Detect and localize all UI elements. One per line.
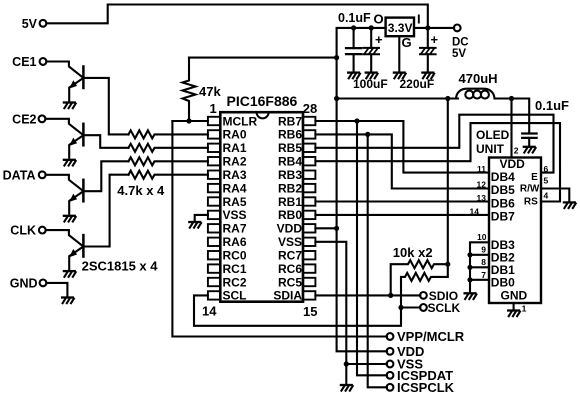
wire regulator G pin to ground (398, 36, 400, 71)
node 100uF tap (369, 25, 374, 30)
wire 5V to regulator input (46, 5, 427, 28)
ground (connector GND pin 1) (508, 311, 520, 317)
wire inductor to 0.1uF (OLED side) (496, 99, 530, 134)
wire VSS bus to VSS terminal (346, 363, 387, 365)
node RB6/ICSPCLK (365, 132, 370, 137)
wire RB6 to DB5 (315, 134, 489, 188)
resistor R2 4.7k (RA1) (129, 144, 208, 152)
resistor R3 4.7k (RA2) (129, 157, 208, 165)
wire 3.3V output rail (337, 28, 386, 228)
wire VSS pin to ground bus (315, 242, 346, 384)
terminal SDIO (420, 289, 458, 303)
wire Q2 collector to RA1 (83, 135, 128, 148)
terminal 5V (22, 17, 47, 31)
wire RB7 to DB4 (315, 121, 489, 173)
wire Q3 collector to RA2 (83, 161, 128, 191)
svg-text:RB5: RB5 (278, 141, 302, 155)
node RB7/ICSPDAT (354, 118, 359, 123)
svg-text:RC7: RC7 (278, 249, 302, 263)
svg-text:DB0: DB0 (491, 276, 515, 290)
svg-text:0.1uF: 0.1uF (535, 98, 569, 113)
resistor R6 10k (SCLK pull-up) (401, 264, 448, 307)
svg-text:RB3: RB3 (278, 168, 302, 182)
svg-text:RA3: RA3 (223, 168, 247, 182)
inductor L1 470uH (456, 71, 498, 99)
svg-text:7: 7 (481, 270, 486, 280)
svg-text:E: E (531, 172, 538, 183)
svg-text:0.1uF: 0.1uF (338, 11, 371, 25)
ground (DB3-DB0) (465, 293, 477, 299)
svg-text:10k x2: 10k x2 (393, 245, 433, 260)
capacitor 0.1uF (OLED supply) (522, 98, 569, 146)
right pin boxes (pins 28-15) (303, 117, 316, 300)
node 10k right ends (445, 262, 450, 267)
svg-text:14: 14 (470, 206, 480, 216)
svg-text:RC1: RC1 (223, 262, 247, 276)
wire regulator input rail (414, 27, 454, 29)
wire RB7 to ICSPDAT (357, 121, 387, 375)
svg-text:2: 2 (514, 145, 519, 155)
wire left bus (MCLR to VPP terminal) (172, 121, 387, 337)
terminal VDD (387, 344, 425, 359)
wire OLED VDD pin 2 drop (510, 99, 512, 158)
ground (100uF) (366, 73, 378, 79)
wire Q1 collector to RA0 (83, 78, 128, 134)
terminal CE2 (12, 112, 45, 126)
svg-text:O: O (374, 12, 384, 27)
capacitor C2 100uF electrolytic (353, 28, 388, 91)
svg-text:DB7: DB7 (491, 210, 515, 224)
svg-text:RA2: RA2 (223, 155, 247, 169)
connector J1 OLED module (489, 158, 541, 304)
node DB0 (467, 277, 472, 282)
transistor Q4 (46, 230, 84, 269)
ground (0.1uF) (348, 73, 360, 79)
transistor Q1 (46, 62, 83, 101)
node SCLK/SCL (398, 305, 403, 310)
node VSS terminal (344, 361, 349, 366)
svg-text:RC6: RC6 (278, 262, 302, 276)
resistor R5 10k (SDIO pull-up) (391, 245, 448, 295)
svg-text:CE1: CE1 (12, 55, 36, 69)
wire VDD rail to VDD terminal (337, 228, 387, 351)
node MCLR/47k (186, 118, 191, 123)
svg-text:RA4: RA4 (223, 181, 247, 195)
terminal DC 5V (452, 25, 469, 61)
svg-text:13: 13 (477, 193, 487, 203)
transistor Q3 (46, 175, 84, 214)
svg-text:+: + (375, 32, 383, 47)
svg-text:UNIT: UNIT (476, 142, 505, 156)
svg-text:ICSPCLK: ICSPCLK (397, 380, 455, 395)
svg-text:RB1: RB1 (278, 195, 302, 209)
svg-text:DB5: DB5 (491, 183, 515, 197)
wire SCL (pin 14) to SCLK (194, 295, 401, 325)
label OLED UNIT (476, 128, 510, 156)
terminal CLK (10, 224, 45, 238)
svg-text:12: 12 (477, 180, 487, 190)
svg-text:15: 15 (303, 304, 317, 319)
resistor R4 4.7k (RA3) (129, 171, 208, 179)
terminal VSS (387, 357, 424, 372)
svg-text:RC5: RC5 (278, 275, 302, 289)
svg-text:5V: 5V (22, 17, 38, 31)
node inductor left tap (334, 96, 339, 101)
svg-text:14: 14 (202, 304, 217, 319)
ground (Q3 emitter) (64, 216, 76, 222)
terminal ICSPDAT (387, 368, 454, 383)
svg-text:SDIA: SDIA (273, 289, 302, 303)
svg-text:RB4: RB4 (278, 155, 302, 169)
node DB2 (467, 252, 472, 257)
svg-text:VPP/MCLR: VPP/MCLR (397, 329, 465, 344)
svg-text:MCLR: MCLR (223, 114, 258, 128)
ground (0.1uF OLED) (524, 147, 536, 153)
svg-text:GND: GND (10, 276, 38, 290)
node 47k tap (334, 55, 339, 60)
terminal ICSPCLK (387, 380, 455, 395)
wire RB1 to DB6 (315, 200, 489, 202)
wire connector GND pin (513, 303, 515, 310)
wire 10k pull-ups to 3.3V rail (447, 99, 449, 265)
svg-text:DATA: DATA (3, 168, 36, 182)
svg-text:RA0: RA0 (223, 128, 247, 142)
svg-text:1: 1 (522, 304, 527, 314)
right pin labels (273, 114, 302, 302)
wire SDIA to SDIO terminal (315, 294, 420, 296)
svg-text:11: 11 (477, 164, 486, 174)
ground (R/W) (564, 202, 576, 208)
wire RB4 to RS (bridge) (315, 123, 560, 201)
svg-text:5: 5 (544, 176, 549, 186)
wire MCLR to left bus (172, 120, 208, 122)
svg-text:RA7: RA7 (223, 222, 247, 236)
wire RB6 to ICSPCLK (368, 134, 387, 387)
svg-text:OLED: OLED (476, 128, 510, 142)
svg-text:DB6: DB6 (491, 196, 515, 210)
node regulator input (425, 25, 430, 30)
wire 47k top to 3.3V rail (189, 57, 337, 59)
svg-text:SCLK: SCLK (428, 301, 461, 315)
svg-text:10: 10 (477, 232, 487, 242)
wire RB0 to DB7 (315, 214, 489, 216)
wire DB3-DB0 bus to ground (470, 242, 489, 292)
svg-text:RA1: RA1 (223, 141, 247, 155)
capacitor C3 220uF electrolytic (400, 28, 439, 91)
svg-text:470uH: 470uH (459, 71, 498, 86)
svg-text:RB7: RB7 (278, 114, 302, 128)
svg-text:2SC1815 x 4: 2SC1815 x 4 (82, 258, 159, 273)
wire Q4 collector to RA3 (83, 175, 128, 247)
svg-text:3.3V: 3.3V (388, 21, 413, 35)
node 0.1uF tap (351, 25, 356, 30)
svg-text:1: 1 (210, 101, 217, 116)
svg-text:RA6: RA6 (223, 235, 247, 249)
left pin boxes (pins 1-14) (208, 117, 221, 300)
svg-text:CLK: CLK (10, 224, 36, 238)
svg-text:R/W: R/W (520, 183, 540, 194)
svg-text:SCL: SCL (223, 289, 247, 303)
svg-text:47k: 47k (199, 84, 221, 99)
svg-text:4.7k x 4: 4.7k x 4 (117, 183, 165, 198)
node VDD pin (334, 226, 339, 231)
svg-text:220uF: 220uF (400, 77, 435, 91)
svg-text:RB0: RB0 (278, 208, 302, 222)
svg-text:9: 9 (481, 245, 486, 255)
ground (Q1 emitter) (64, 103, 76, 109)
ground (220uF) (422, 73, 434, 79)
node 10k rail tap (445, 96, 450, 101)
svg-text:4: 4 (544, 191, 549, 201)
left pin labels (223, 114, 258, 302)
svg-text:RS: RS (524, 196, 538, 207)
svg-text:28: 28 (303, 101, 317, 116)
regulator U2 3.3V (374, 12, 421, 51)
svg-text:+: + (431, 32, 439, 47)
terminal GND (10, 276, 47, 290)
connector pin number labels (470, 164, 487, 280)
svg-text:RC0: RC0 (223, 249, 247, 263)
wire VDD pin to 3.3V rail (315, 227, 336, 229)
svg-text:DC: DC (452, 37, 469, 49)
svg-text:G: G (402, 35, 412, 50)
ground (VSS bus) (341, 385, 353, 391)
svg-text:8: 8 (481, 257, 486, 267)
terminal VPP/MCLR (387, 329, 465, 344)
ground (Q2 emitter) (64, 160, 76, 166)
svg-text:I: I (417, 12, 421, 27)
transistor Q2 (45, 119, 83, 158)
svg-text:5V: 5V (452, 48, 466, 60)
svg-text:GND: GND (501, 289, 528, 303)
wire R/W to ground (541, 189, 569, 202)
svg-text:VDD: VDD (277, 222, 303, 236)
ground (GND terminal) (62, 298, 74, 304)
svg-text:RA5: RA5 (223, 195, 247, 209)
svg-text:CE2: CE2 (12, 112, 36, 126)
svg-text:6: 6 (544, 164, 549, 174)
wire SCLK stub (401, 306, 420, 308)
resistor 47k pull-up (183, 58, 222, 121)
node SDIO/10k (388, 293, 393, 298)
capacitor 0.1uF (regulator output) (338, 11, 371, 72)
ground (regulator G) (394, 73, 406, 79)
terminal SCLK (420, 301, 461, 315)
wire GND terminal to ground (46, 283, 67, 296)
svg-text:VSS: VSS (223, 208, 247, 222)
IC U1 PIC16F886 body (220, 93, 303, 302)
node OLED VDD tap (509, 96, 514, 101)
svg-text:RB2: RB2 (278, 181, 302, 195)
wire RB5 to E (bridge) (315, 115, 553, 173)
svg-text:PIC16F886: PIC16F886 (227, 93, 298, 109)
ground (Q4 emitter) (64, 271, 76, 277)
svg-text:RB6: RB6 (278, 128, 302, 142)
connector labels (491, 157, 540, 302)
terminal DATA (3, 168, 46, 182)
node DB1 (467, 265, 472, 270)
svg-text:VSS: VSS (278, 235, 302, 249)
terminal CE1 (12, 55, 46, 69)
svg-text:RC2: RC2 (223, 275, 247, 289)
wire 3.3V rail to inductor (337, 97, 458, 99)
resistor R1 4.7k (RA0) (129, 130, 208, 138)
ground (VSS pin 8 left) (189, 215, 208, 228)
